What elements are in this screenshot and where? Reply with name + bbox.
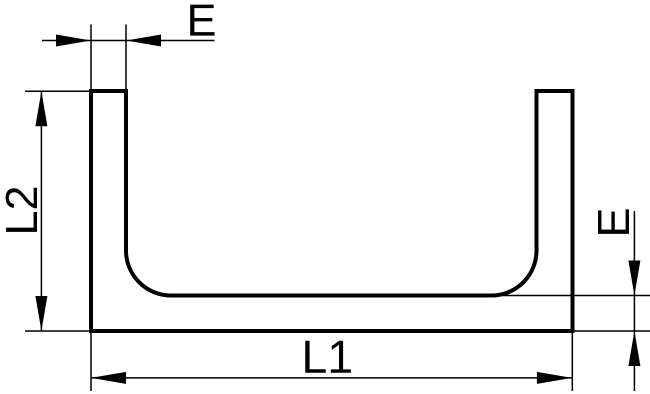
label L2 xyxy=(6,188,37,232)
arrowhead L2 down xyxy=(35,296,47,331)
arrowhead L2 up xyxy=(35,91,47,126)
arrowhead E-right up xyxy=(628,331,640,366)
U-channel profile outline xyxy=(91,91,573,331)
arrowhead L1 left xyxy=(91,372,126,384)
arrowhead E-top right xyxy=(126,35,161,47)
label E top xyxy=(190,5,214,36)
extension line L2 top xyxy=(25,90,91,92)
dimension line E-top xyxy=(42,40,215,42)
label E right xyxy=(598,209,629,233)
dimension line L2 xyxy=(40,91,42,331)
extension line L1 right xyxy=(571,332,573,391)
label L1 xyxy=(305,341,351,373)
dimension line L1 xyxy=(91,377,572,379)
arrowhead E-top left xyxy=(56,35,91,47)
extension line E-top right (flange inner edge) xyxy=(125,25,127,92)
extension line L1 left xyxy=(90,332,92,391)
extension line L2 bottom xyxy=(25,330,91,332)
arrowhead E-right down xyxy=(628,261,640,296)
dimension line E-right xyxy=(633,211,635,391)
extension line E-right upper (inner bottom surface) xyxy=(495,295,650,297)
extension line E-top left (flange outer edge) xyxy=(90,25,92,92)
extension line E-right lower (outer bottom surface) xyxy=(575,330,650,332)
arrowhead L1 right xyxy=(537,372,572,384)
